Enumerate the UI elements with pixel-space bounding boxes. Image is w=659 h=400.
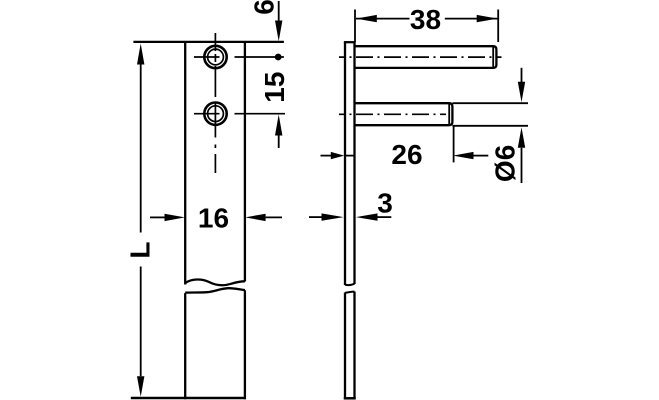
dimension 38: right extension line (pin 1 end) <box>497 10 499 43</box>
dimension 6/15: dot terminator at hole 1 center line <box>275 54 282 61</box>
dimension 38: left extension line (plate right face) <box>354 10 356 43</box>
pin 2 end cap line <box>448 103 450 125</box>
svg-text:3: 3 <box>377 187 393 218</box>
dimension 3: right arrow pointing left at plate right face <box>356 213 378 220</box>
front view: flat bar right edge upper segment <box>244 42 246 282</box>
dimension 26: short line through plate <box>344 155 355 157</box>
svg-text:Ø6: Ø6 <box>489 145 520 182</box>
pin 1 (top stud) outline <box>355 46 497 68</box>
hole 2 crosshair right + extension line to dimension 15 <box>235 113 286 115</box>
pin 2 (bottom stud) outline <box>355 103 453 125</box>
dimension 38: left arrowhead pointing left <box>356 15 377 22</box>
dimension 26: left arrow pointing right at plate <box>321 155 333 157</box>
dimension 16: right arrow pointing left at bar right edge <box>266 216 282 218</box>
side view: plate right edge lower segment <box>353 292 355 400</box>
dimension O6: bottom extension line from pin 2 lower edge <box>452 125 528 127</box>
hole 1 horizontal crosshair left <box>194 56 220 58</box>
pin 1 end cap line <box>492 46 494 68</box>
side view: plate right edge upper segment <box>353 42 355 284</box>
dimension O6: lower arrow pointing up <box>518 127 525 148</box>
dimension 16: left arrow pointing right at bar left edge <box>150 216 165 218</box>
dimension L: upper line with arrowhead pointing up to top edge <box>137 44 144 65</box>
hole 1 outer circle <box>204 46 226 68</box>
dimension 6: arrowhead pointing down at top edge <box>275 21 282 42</box>
hole 1 inner circle <box>208 49 224 65</box>
dimension L: lower line with arrowhead pointing down to bottom edge <box>140 267 142 377</box>
front view: lower break wavy line <box>185 288 245 293</box>
front view: flat bar left edge upper segment <box>184 42 186 285</box>
front view: flat bar bottom edge with left extension line for L <box>131 397 246 400</box>
side view: plate upper break line <box>345 284 355 285</box>
side view: plate left edge upper segment <box>344 42 346 285</box>
hole 1 crosshair right + extension line to dimension 6/15 <box>235 56 284 58</box>
dimension 6: line above top edge <box>278 1 280 21</box>
hole 2 inner circle <box>208 106 224 122</box>
hole 2 horizontal crosshair left <box>194 113 220 115</box>
front view: vertical centerline through holes (dash-dot) <box>214 33 216 173</box>
svg-text:6: 6 <box>248 0 279 15</box>
svg-text:38: 38 <box>410 4 441 35</box>
svg-text:L: L <box>125 241 156 258</box>
front view: flat bar left edge lower segment <box>184 293 186 399</box>
dimension 38: dimension line left segment <box>356 18 410 20</box>
dimension 38: dimension line right segment <box>445 18 498 20</box>
dimension 15: tail line below arrowhead <box>278 136 280 149</box>
front view: flat bar top edge with extension lines <box>133 41 284 43</box>
dimension O6: top extension line from pin 2 upper edge <box>452 102 528 104</box>
svg-text:26: 26 <box>391 139 422 170</box>
front view: flat bar right edge lower segment <box>244 290 246 399</box>
dimension 15: arrowhead pointing up at hole 2 center line <box>275 115 282 136</box>
hole 2 outer circle <box>204 103 226 125</box>
dimension O6: upper arrow pointing down <box>521 68 523 82</box>
side view: plate lower break line <box>345 292 355 293</box>
side view: plate bottom edge <box>344 397 356 400</box>
dimension 26: right arrow pointing left at pin 2 end <box>453 152 474 159</box>
side view: plate top edge <box>344 41 356 43</box>
pin 1 centerline (dash-dot) <box>339 56 502 58</box>
dimension 3: left arrow pointing right at plate left face <box>309 216 322 218</box>
svg-text:15: 15 <box>259 72 290 103</box>
pin 2 centerline (dash-dot) <box>339 113 446 115</box>
side view: plate left edge lower segment <box>344 293 346 400</box>
front view: upper break wavy line <box>185 279 245 285</box>
dimension 38: right arrowhead pointing right <box>477 15 498 22</box>
dimension 26: vertical extension line at pin 2 end <box>453 126 455 162</box>
svg-text:16: 16 <box>198 203 229 234</box>
